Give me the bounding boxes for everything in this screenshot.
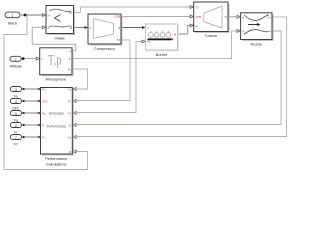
arrowheads filled into ovals 3-7 (22, 88, 25, 139)
open arrow into Intake M (42, 14, 45, 17)
arrow filled into Compressor A (85, 26, 88, 29)
svg-text:Ta: Ta (68, 67, 71, 71)
block Intake (46, 6, 75, 41)
block Nozzle (241, 13, 274, 47)
svg-text:T4: T4 (68, 111, 72, 115)
svg-text:Ua: Ua (67, 135, 71, 139)
wires Performance outputs to outports (24, 89, 38, 137)
svg-text:Fg: Fg (42, 111, 46, 115)
inport 2 Altitude (10, 56, 22, 68)
wire Atmosphere Ta to Performance (72, 69, 88, 89)
outport 4 (10, 99, 21, 111)
svg-text:Performance: Performance (47, 124, 67, 128)
wire Intake B to Compressor A (74, 27, 86, 29)
wire Compressor QTB to Turbine QTB (121, 16, 191, 18)
wire Turbine B to Nozzle A (228, 16, 238, 18)
svg-text:B: B (174, 33, 176, 37)
open arrows into Performance right edge (73, 88, 77, 154)
svg-text:T3: T3 (117, 38, 121, 42)
block Burner (146, 24, 179, 57)
wire Burner B to Turbine A (178, 26, 192, 35)
wire Compressor T3 down to Performance (77, 40, 130, 101)
junction dot Mach (24, 14, 27, 17)
block Performance Calculations (41, 87, 74, 166)
outport 7 (10, 135, 21, 147)
svg-text:B: B (118, 26, 120, 30)
block Compressor (88, 14, 123, 51)
arrowheads filled at Performance left edge (37, 88, 40, 139)
open arrow into Burner T4 (142, 40, 145, 43)
svg-text:FI: FI (14, 143, 17, 147)
junction dot Altitude (22, 57, 25, 60)
svg-text:B: B (70, 26, 72, 30)
inport 1 Mach (5, 12, 20, 26)
outport 6 (10, 123, 21, 135)
outport 3 (10, 87, 21, 99)
svg-text:T3: T3 (68, 99, 72, 103)
svg-text:T2: T2 (69, 11, 73, 15)
arrow filled into Burner A (142, 26, 145, 29)
open arrow into Atmosphere h (36, 57, 39, 60)
svg-text:Atmosphere: Atmosphere (46, 78, 66, 82)
svg-text:6: 6 (15, 124, 17, 128)
svg-text:1: 1 (12, 14, 14, 18)
svg-text:SFC: SFC (42, 99, 48, 103)
svg-text:2: 2 (15, 58, 17, 62)
open arrows into Nozzle (237, 15, 240, 32)
svg-text:B: B (225, 15, 227, 19)
open arrows into Turbine (190, 6, 193, 28)
svg-text:Altitude: Altitude (10, 65, 22, 69)
svg-text:P: P (69, 57, 71, 61)
svg-text:5: 5 (15, 112, 17, 116)
svg-text:F: F (269, 30, 271, 34)
svg-text:A: A (147, 26, 149, 30)
wire Mach loop to Performance M input (4, 15, 88, 170)
block Atmosphere (40, 48, 74, 82)
svg-text:Ta: Ta (68, 87, 71, 91)
wire Altitude to Atmosphere (21, 58, 37, 60)
wire Atmosphere a to Intake A (32, 27, 75, 50)
svg-text:Performance: Performance (45, 157, 67, 161)
svg-text:Mach: Mach (8, 22, 17, 26)
svg-text:Compressor: Compressor (94, 47, 115, 51)
svg-text:7: 7 (15, 136, 17, 140)
wire Burner T4 to Performance (77, 42, 142, 113)
svg-text:Simscape: Simscape (49, 111, 64, 115)
svg-text:T4: T4 (147, 40, 151, 44)
svg-text:Intake: Intake (55, 37, 65, 41)
svg-text:T2: T2 (195, 6, 199, 10)
svg-text:Burner: Burner (156, 53, 168, 57)
svg-text:A: A (90, 26, 92, 30)
svg-text:4: 4 (15, 100, 17, 104)
svg-text:3: 3 (15, 88, 17, 92)
svg-text:QTB: QTB (114, 15, 120, 19)
svg-text:Nozzle: Nozzle (250, 43, 262, 47)
svg-text:Turbine: Turbine (204, 34, 217, 38)
wire Intake T2 to Turbine T2 (74, 7, 192, 13)
svg-text:B: B (242, 30, 244, 34)
svg-text:P: P (42, 123, 44, 127)
svg-text:Fi: Fi (42, 135, 45, 139)
svg-text:Calculations: Calculations (46, 162, 67, 166)
open arrow into Intake A (42, 26, 45, 29)
wire Nozzle out1 to Performance Ua (77, 17, 287, 137)
svg-text:T,p: T,p (48, 53, 62, 69)
wire Compressor B to Burner A (121, 27, 143, 29)
svg-text:Ua: Ua (267, 15, 271, 19)
svg-text:A: A (242, 15, 244, 19)
svg-text:A: A (48, 26, 50, 30)
svg-text:A: A (195, 24, 197, 28)
wire Mach to Intake (21, 14, 43, 16)
wire Nozzle out2 to Performance G (77, 31, 281, 125)
svg-text:QTB: QTB (195, 15, 201, 19)
svg-text:Fn: Fn (42, 87, 46, 91)
wire Atmosphere P to Nozzle B (72, 31, 238, 59)
block Turbine (194, 2, 230, 38)
outport 5 (10, 111, 21, 123)
